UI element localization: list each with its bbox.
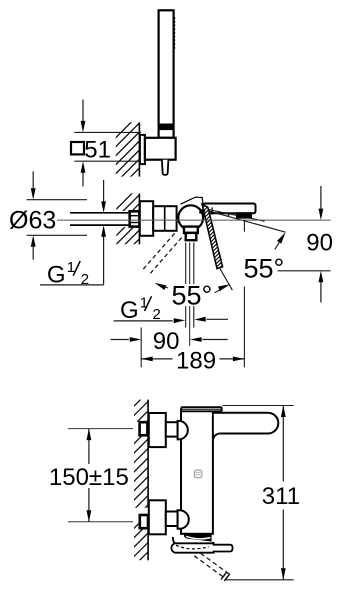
svg-text:1: 1: [140, 294, 148, 311]
svg-text:G: G: [120, 297, 139, 324]
svg-text:311: 311: [262, 483, 300, 510]
svg-text:Ø63: Ø63: [9, 206, 56, 234]
svg-text:51: 51: [84, 137, 111, 164]
svg-text:90: 90: [306, 229, 333, 256]
svg-text:55°: 55°: [172, 281, 213, 311]
svg-text:150±15: 150±15: [49, 464, 129, 491]
svg-text:189: 189: [176, 347, 216, 374]
svg-text:55°: 55°: [244, 253, 285, 283]
